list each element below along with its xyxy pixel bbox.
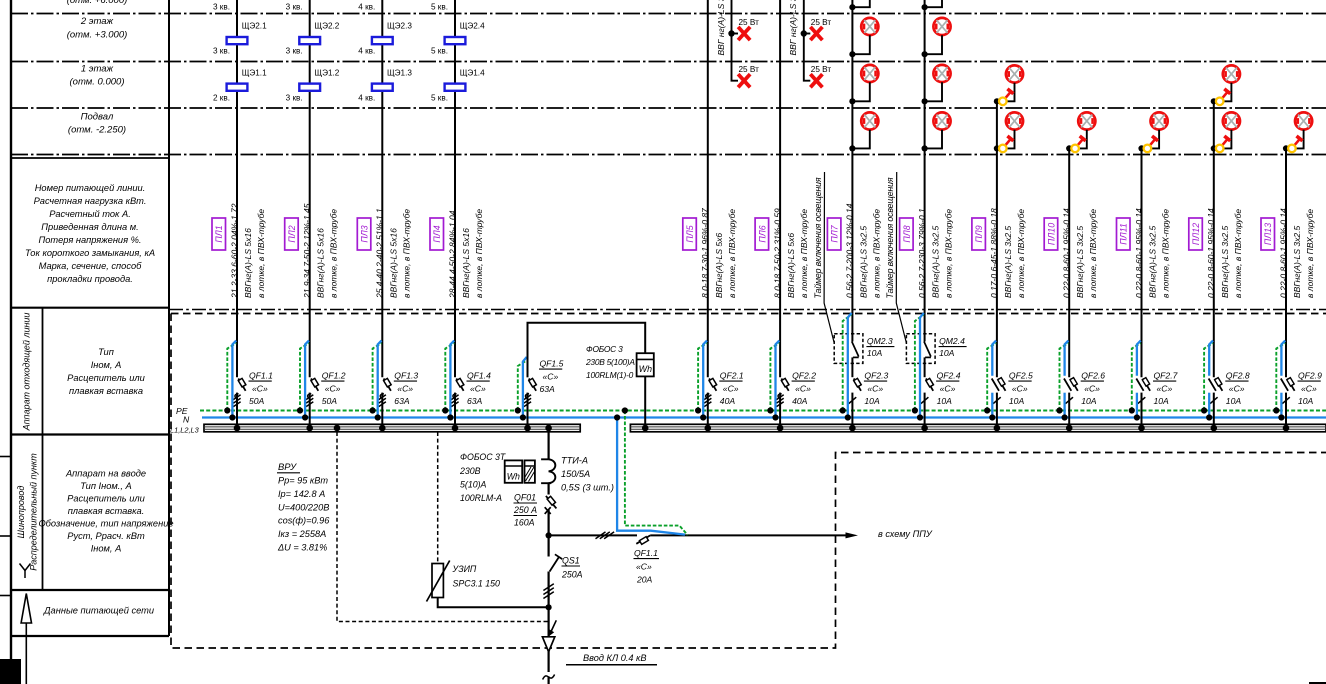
svg-text:ПЛ7: ПЛ7 (830, 224, 840, 242)
svg-text:250 А: 250 А (513, 505, 537, 515)
cable riser ПЛ8 PE+N (915, 315, 924, 411)
label ПЛ1 feeder tag (212, 218, 226, 250)
node N tap PPU (614, 414, 620, 420)
wire QF2.8 to busbar (1213, 393, 1215, 425)
wire lamp drop ПЛ10 basement (1069, 130, 1087, 149)
svg-text:Марка, сечение, способ: Марка, сечение, способ (39, 261, 143, 271)
svg-text:«C»: «C» (795, 384, 811, 394)
label ВРУ data (277, 461, 330, 553)
wire feeder line ПЛ5 (707, 0, 709, 377)
busbar L1,L2,L3 left section (204, 424, 580, 432)
wire lamp drop ПЛ7 floor2 (852, 35, 869, 54)
surge protector УЗИП varistor (432, 564, 443, 598)
svg-text:10А: 10А (937, 396, 953, 406)
lamp ПЛ13 basement (1295, 112, 1312, 129)
node УЗИП junction (546, 604, 552, 610)
cable riser ПЛ6 PE+N (770, 343, 779, 410)
svg-text:Номер питающей линии.: Номер питающей линии. (35, 183, 146, 193)
lamp ПЛ7 floor0 (861, 112, 878, 129)
node lamp drop ПЛ9 floor1 (994, 98, 1000, 104)
svg-text:«C»: «C» (543, 372, 559, 382)
wire lamp drop ПЛ11 basement (1142, 130, 1160, 149)
svg-text:3 кв.: 3 кв. (286, 3, 303, 12)
label ПЛ10 feeder tag (1044, 218, 1058, 250)
cable riser ПЛ3 PE+N (373, 343, 382, 410)
wire QF1.3 to busbar (381, 393, 383, 425)
svg-text:в лотке, в ПВХ-трубе: в лотке, в ПВХ-трубе (1016, 209, 1026, 298)
svg-text:ПЛ5: ПЛ5 (685, 225, 695, 242)
svg-text:10А: 10А (1081, 396, 1097, 406)
node lamp drop ПЛ12 floor0 (1211, 145, 1217, 151)
node QF1.2 busbar (306, 425, 313, 432)
svg-text:Wh: Wh (507, 472, 520, 482)
cable PE to PPU branch (625, 411, 688, 536)
wire lamp drop ПЛ8 floor0 (925, 130, 942, 149)
svg-text:QF2.1: QF2.1 (720, 371, 744, 381)
wire УЗИП to main line (438, 598, 549, 608)
svg-text:«C»: «C» (1229, 384, 1245, 394)
lamp ПЛ7 floor2 (861, 18, 878, 35)
breaker QF2.9 (1281, 378, 1295, 404)
svg-text:Iном, А: Iном, А (91, 544, 122, 554)
wire floor-level dash-dot line 4 (11, 154, 1326, 156)
svg-text:0.17-0.6-45-1.88%-0.18: 0.17-0.6-45-1.88%-0.18 (989, 208, 999, 298)
table cell incoming apparatus text (38, 469, 173, 554)
wire floor-level dash-dot line 3 (11, 107, 1326, 109)
svg-text:в лотке, в ПВХ-трубе: в лотке, в ПВХ-трубе (871, 209, 881, 298)
node QF1.4 busbar (452, 425, 459, 432)
svg-text:SPC3.1 150: SPC3.1 150 (453, 579, 501, 589)
node lamp stub floor3 ПЛ8 (922, 4, 928, 10)
contactor QM2.4 contact (924, 342, 931, 357)
table feeder-data header text (25, 183, 155, 284)
breaker QF2.4 (921, 378, 934, 403)
svg-text:5 кв.: 5 кв. (431, 47, 448, 56)
wire feeder line ПЛ13 (1285, 148, 1287, 377)
svg-text:230В: 230В (459, 466, 481, 476)
svg-text:150/5А: 150/5А (561, 469, 590, 479)
cable break symbol (543, 675, 555, 680)
svg-text:«C»: «C» (325, 384, 341, 394)
breaker QF1.1 (233, 378, 245, 406)
wire feeder line ПЛ11 (1141, 148, 1143, 377)
svg-text:Рр= 95 кВт: Рр= 95 кВт (278, 476, 328, 486)
lamp ПЛ10 basement (1078, 112, 1095, 129)
label ПЛ2 feeder tag (285, 218, 299, 250)
lamp ПЛ11 basement (1151, 112, 1168, 129)
wire lamp drop ПЛ12 floor0 (1214, 130, 1232, 149)
svg-text:Обозначение, тип напряжение: Обозначение, тип напряжение (38, 519, 173, 529)
svg-text:ФОБОС 3Т: ФОБОС 3Т (460, 452, 506, 462)
svg-text:ВВГнг(А)-LS 5х16: ВВГнг(А)-LS 5х16 (316, 228, 326, 298)
svg-text:«C»: «C» (470, 384, 486, 394)
svg-text:2 этаж: 2 этаж (80, 16, 114, 27)
meter ФОБОС 3Т second box (525, 460, 535, 482)
wire lamp drop ПЛ7 floor1 (852, 82, 869, 101)
svg-text:(отм. -2.250): (отм. -2.250) (68, 125, 126, 136)
svg-text:ВВГнг(А)-LS 5х16: ВВГнг(А)-LS 5х16 (388, 228, 398, 298)
sheet edge tick 2 (0, 535, 11, 537)
lamp ПЛ12 floor0 (1223, 112, 1240, 129)
svg-text:63А: 63А (467, 396, 483, 406)
svg-text:3 кв.: 3 кв. (286, 94, 303, 103)
svg-text:5(10)А: 5(10)А (460, 480, 487, 490)
svg-text:QM2.3: QM2.3 (867, 336, 893, 346)
svg-text:100RLM-A: 100RLM-A (460, 493, 502, 503)
leader line timer ПЛ7 (824, 172, 834, 343)
meter ФОБОС 3 Wh box (637, 353, 654, 376)
node lamp drop ПЛ8 floor2 (922, 51, 928, 57)
svg-text:Iкз = 2558А: Iкз = 2558А (278, 529, 326, 539)
cable riser ПЛ5 PE+N (698, 343, 707, 410)
svg-text:Потеря напряжения %.: Потеря напряжения %. (38, 235, 141, 245)
svg-text:10А: 10А (1226, 396, 1242, 406)
svg-text:ΔU = 3.81%: ΔU = 3.81% (277, 543, 327, 553)
wire feeder line ПЛ12 (1213, 101, 1215, 377)
wall luminaire ПЛ9 floor0 (999, 136, 1013, 152)
svg-text:cos(ф)=0.96: cos(ф)=0.96 (278, 516, 330, 526)
node branch to PPU (546, 532, 552, 538)
label ПЛ4 feeder tag (430, 218, 444, 250)
svg-text:25 Вт: 25 Вт (811, 18, 832, 27)
wire QF1.5 to busbar (527, 393, 529, 425)
node metering boundary on busbar (334, 425, 341, 432)
svg-text:L1,L2,L3: L1,L2,L3 (170, 426, 200, 435)
breaker QF01 (546, 496, 557, 509)
svg-text:«C»: «C» (1084, 384, 1100, 394)
wire QF2.3 to busbar (851, 393, 853, 425)
breaker QF2.6 (1064, 378, 1078, 404)
svg-text:ВВГнг(А)-LS 5х6: ВВГнг(А)-LS 5х6 (786, 233, 796, 298)
svg-text:Таймер включения освещения: Таймер включения освещения (885, 177, 895, 298)
lamp 25W floor1 ПЛ5 (738, 74, 750, 87)
svg-text:QF1.1: QF1.1 (634, 548, 658, 558)
breaker QF1.3 (379, 378, 391, 406)
wall luminaire ПЛ13 basement (1288, 136, 1302, 152)
svg-text:21.2-33.6-60-2.04%-1.72: 21.2-33.6-60-2.04%-1.72 (229, 203, 239, 299)
svg-text:2 кв.: 2 кв. (213, 94, 230, 103)
label floor 2 (67, 16, 128, 41)
svg-text:Приведенная длина м.: Приведенная длина м. (41, 222, 138, 232)
panel box ЩЭ1.1 (227, 84, 248, 91)
three-wire marks on PPU branch (596, 532, 615, 539)
svg-text:20А: 20А (636, 575, 653, 585)
svg-text:«C»: «C» (867, 384, 883, 394)
table strip divider (42, 308, 44, 590)
svg-text:0.22-0.8-60-1.95%-0.14: 0.22-0.8-60-1.95%-0.14 (1134, 208, 1144, 298)
wall luminaire ПЛ10 basement (1071, 136, 1085, 152)
cable riser ПЛ11 PE+N (1132, 343, 1141, 410)
node QF2.1 busbar (705, 425, 712, 432)
wire feeder line ПЛ1 (236, 0, 238, 377)
supply feed arrow symbol (21, 594, 31, 684)
node incoming busbar (545, 425, 552, 432)
svg-text:100RLM(1)-0: 100RLM(1)-0 (586, 370, 634, 380)
svg-text:ЩЭ2.4: ЩЭ2.4 (460, 22, 485, 31)
wire feeder line ПЛ6 (779, 0, 781, 377)
svg-text:«C»: «C» (940, 384, 956, 394)
node QF2.3 busbar (849, 425, 856, 432)
breaker QF2.3 (849, 378, 862, 403)
svg-text:«C»: «C» (636, 562, 652, 572)
svg-text:в лотке, в ПВХ-трубе: в лотке, в ПВХ-трубе (474, 209, 484, 298)
breaker QF2.8 (1209, 378, 1223, 404)
svg-text:10А: 10А (867, 348, 883, 358)
svg-text:Ток короткого замыкания, кА: Ток короткого замыкания, кА (25, 248, 155, 258)
svg-text:ВВГнг(А)-LS 3х2.5: ВВГнг(А)-LS 3х2.5 (1148, 226, 1158, 298)
wire QF2.2 to busbar (779, 393, 781, 425)
label ПЛ11 feeder tag (1117, 218, 1131, 250)
wire QF2.4 to busbar (924, 393, 926, 425)
lamp ПЛ8 floor1 (933, 65, 950, 82)
wire dash-dot line under feeder-data row (169, 309, 1326, 311)
node lamp drop ПЛ7 floor2 (849, 51, 855, 57)
svg-text:QF1.5: QF1.5 (540, 359, 564, 369)
node lamp drop ПЛ7 floor1 (849, 98, 855, 104)
svg-text:ПЛ12: ПЛ12 (1191, 223, 1201, 245)
svg-text:ВВГнг(А)-LS 3х2.5: ВВГнг(А)-LS 3х2.5 (1075, 226, 1085, 298)
wire feeder line ПЛ7 (851, 0, 853, 342)
svg-text:ПЛ10: ПЛ10 (1046, 223, 1056, 245)
meter ФОБОС 3Т Wh box (505, 460, 523, 482)
svg-text:50А: 50А (322, 396, 338, 406)
breaker QF2.1 (704, 378, 716, 406)
cable N to PPU branch (617, 418, 685, 535)
svg-text:QF2.9: QF2.9 (1298, 371, 1322, 381)
wire branch to PPU (549, 534, 637, 536)
three-wire marks on main line (543, 584, 553, 599)
cable termination symbol (542, 637, 554, 652)
sheet edge tick 1 (0, 456, 11, 458)
cable riser ПЛ4 PE+N (445, 343, 454, 410)
svg-text:63А: 63А (540, 384, 556, 394)
svg-text:5 кв.: 5 кв. (431, 3, 448, 12)
cable riser ПЛ7 PE+N (843, 315, 852, 411)
panel box ЩЭ2.4 (445, 37, 466, 44)
svg-text:ЩЭ1.3: ЩЭ1.3 (387, 69, 412, 78)
svg-text:QF2.8: QF2.8 (1226, 371, 1250, 381)
svg-text:ВВГ нг(А)-LS 3х1.5: ВВГ нг(А)-LS 3х1.5 (788, 0, 798, 56)
wire feeder line ПЛ3 (381, 0, 383, 377)
node lamp branch ПЛ6 (801, 30, 807, 36)
wire lamp drop ПЛ7 floor0 (852, 130, 869, 149)
contactor QM2.3 contact (852, 342, 859, 357)
label ФОБОС 3Т (459, 452, 506, 503)
node QF2.2 busbar (777, 425, 784, 432)
svg-text:Руст, Ррасч. кВт: Руст, Ррасч. кВт (67, 531, 145, 541)
svg-text:4 кв.: 4 кв. (358, 94, 375, 103)
wire N bus (blue) (202, 416, 1326, 418)
label ПЛ13 feeder tag (1261, 218, 1275, 250)
svg-text:QF2.5: QF2.5 (1009, 371, 1033, 381)
svg-text:Расчетный ток А.: Расчетный ток А. (49, 209, 131, 219)
svg-text:«C»: «C» (1012, 384, 1028, 394)
node lamp drop ПЛ11 basement (1138, 145, 1144, 151)
wire lamp drop ПЛ13 basement (1286, 130, 1304, 149)
svg-text:QF2.7: QF2.7 (1154, 371, 1179, 381)
svg-text:QF1.2: QF1.2 (322, 371, 346, 381)
surge protector УЗИП dashed link (437, 432, 439, 563)
wire QF2.6 to busbar (1068, 393, 1070, 425)
svg-text:QF2.4: QF2.4 (937, 371, 961, 381)
panel box ЩЭ2.2 (299, 37, 320, 44)
lamp 25W floor2 ПЛ6 (810, 27, 822, 40)
svg-text:ЩЭ2.2: ЩЭ2.2 (314, 22, 339, 31)
svg-text:25 Вт: 25 Вт (811, 65, 832, 74)
label ПЛ7 feeder tag (827, 218, 841, 250)
svg-text:28-44.4-50-2.84%-1.04: 28-44.4-50-2.84%-1.04 (447, 210, 457, 299)
panel box ЩЭ2.3 (372, 37, 393, 44)
svg-text:8.0-18.7-30-1.96%-0.87: 8.0-18.7-30-1.96%-0.87 (700, 208, 710, 298)
wire floor-level dash-dot line 1 (11, 13, 1326, 15)
svg-text:1 этаж: 1 этаж (81, 64, 114, 75)
node lamp drop ПЛ13 basement (1283, 145, 1289, 151)
cable entry arrow (551, 620, 557, 632)
svg-text:10А: 10А (864, 396, 880, 406)
svg-text:ВВГнг(А)-LS 3х2.5: ВВГнг(А)-LS 3х2.5 (1003, 226, 1013, 298)
svg-text:40А: 40А (720, 396, 736, 406)
wire QF1.1 to busbar (236, 393, 238, 425)
current transformer ТТИ-А (541, 459, 551, 483)
wire feeder line ПЛ8 (924, 0, 926, 342)
wire QF2.7 to busbar (1141, 393, 1143, 425)
svg-text:«C»: «C» (252, 384, 268, 394)
metering section dashed boundary (337, 432, 549, 622)
svg-text:160А: 160А (514, 518, 535, 528)
svg-text:0.22-0.8-60-1.95%-0.14: 0.22-0.8-60-1.95%-0.14 (1278, 208, 1288, 298)
svg-text:(отм. +3.000): (отм. +3.000) (67, 30, 128, 41)
table row bottom line (11, 635, 169, 637)
wire lamp drop ПЛ8 floor1 (925, 82, 942, 101)
svg-text:в лотке, в ПВХ-трубе: в лотке, в ПВХ-трубе (401, 209, 411, 298)
svg-text:«C»: «C» (1301, 384, 1317, 394)
svg-text:в лотке, в ПВХ-трубе: в лотке, в ПВХ-трубе (256, 209, 266, 298)
svg-text:в лотке, в ПВХ-трубе: в лотке, в ПВХ-трубе (799, 209, 809, 298)
svg-text:Тип: Тип (98, 347, 114, 357)
node QF1.3 busbar (379, 425, 386, 432)
svg-text:0,5S (3 шт.): 0,5S (3 шт.) (561, 483, 614, 493)
lamp ПЛ8 floor0 (933, 112, 950, 129)
node lamp stub floor3 ПЛ7 (849, 4, 855, 10)
cable riser ПЛ2 PE+N (300, 343, 309, 410)
svg-text:8.0-18.7-50-2.31%-0.59: 8.0-18.7-50-2.31%-0.59 (772, 208, 782, 298)
svg-text:0.22-0.8-60-1.95%-0.14: 0.22-0.8-60-1.95%-0.14 (1206, 208, 1216, 298)
svg-text:ЩЭ1.1: ЩЭ1.1 (242, 69, 267, 78)
svg-text:QF1.4: QF1.4 (467, 371, 491, 381)
wire QF2.9 to busbar (1285, 393, 1287, 425)
svg-text:Данные питающей сети: Данные питающей сети (43, 606, 154, 616)
wire floor-level dash-dot line 2 (11, 61, 1326, 63)
wire QF1.2 to busbar (309, 393, 311, 425)
wall luminaire ПЛ12 floor0 (1216, 136, 1230, 152)
wire incoming main line (547, 432, 549, 460)
switch QS1 (550, 557, 560, 572)
table row line under incoming apparatus row (11, 589, 169, 591)
wire QF2.1 to busbar (707, 393, 709, 425)
cable riser QF1.5 PE+N (518, 361, 527, 411)
node PE tap PPU (622, 407, 628, 413)
label ПЛ9 feeder tag (972, 218, 986, 250)
wire meter to right busbar (644, 376, 646, 424)
svg-text:QF2.2: QF2.2 (792, 371, 816, 381)
sheet edge tick 3 (0, 595, 11, 597)
wire QF1.4 to busbar (454, 393, 456, 425)
contactor QM2.3 dashed box (834, 334, 863, 364)
VRU cabinet dashed boundary (171, 313, 1326, 315)
table row line under feeder data (11, 307, 169, 309)
svg-text:«C»: «C» (397, 384, 413, 394)
svg-text:в лотке, в ПВХ-трубе: в лотке, в ПВХ-трубе (329, 209, 339, 298)
lamp ПЛ8 floor2 (933, 18, 950, 35)
node QF2.6 busbar (1066, 425, 1073, 432)
node QF2.8 busbar (1211, 425, 1218, 432)
node lamp drop ПЛ12 floor1 (1211, 98, 1217, 104)
table column divider (168, 0, 170, 636)
svg-text:Шинопровод: Шинопровод (16, 486, 26, 539)
svg-text:Подвал: Подвал (81, 112, 114, 123)
svg-text:10А: 10А (1298, 396, 1314, 406)
panel box ЩЭ1.3 (372, 84, 393, 91)
label ФОБОС 3 (585, 344, 635, 380)
svg-text:в лотке, в ПВХ-трубе: в лотке, в ПВХ-трубе (727, 209, 737, 298)
svg-text:ПЛ11: ПЛ11 (1119, 223, 1129, 245)
node QF2.7 busbar (1138, 425, 1145, 432)
svg-text:ЩЭ2.1: ЩЭ2.1 (242, 22, 267, 31)
svg-text:3 кв.: 3 кв. (213, 47, 230, 56)
svg-text:ВВГнг(А)-LS 3х2.5: ВВГнг(А)-LS 3х2.5 (1220, 226, 1230, 298)
svg-text:5 кв.: 5 кв. (431, 94, 448, 103)
node lamp drop ПЛ8 floor1 (922, 98, 928, 104)
label ПЛ5 feeder tag (683, 218, 697, 250)
breaker QF1.1 of PPU branch (636, 535, 650, 543)
svg-text:0.56-2.7-230-3.79%-0.1: 0.56-2.7-230-3.79%-0.1 (917, 208, 927, 298)
svg-text:в схему ППУ: в схему ППУ (878, 529, 933, 539)
leader line timer ПЛ8 (896, 172, 906, 343)
panel box ЩЭ2.1 (227, 37, 248, 44)
svg-text:Аппарат отходящей линии: Аппарат отходящей линии (22, 313, 32, 432)
svg-text:4 кв.: 4 кв. (358, 3, 375, 12)
svg-text:QF1.1: QF1.1 (249, 371, 273, 381)
svg-text:0.56-2.7-200-3.12%-0.14: 0.56-2.7-200-3.12%-0.14 (845, 203, 855, 298)
svg-text:в лотке, в ПВХ-трубе: в лотке, в ПВХ-трубе (1088, 209, 1098, 298)
svg-text:ПЛ6: ПЛ6 (757, 225, 767, 242)
svg-text:QM2.4: QM2.4 (939, 336, 965, 346)
cable riser ПЛ9 PE+N (987, 343, 996, 410)
svg-text:3 кв.: 3 кв. (286, 47, 303, 56)
sheet corner stamp block (0, 659, 21, 684)
svg-text:ЩЭ1.4: ЩЭ1.4 (460, 69, 485, 78)
wire feeder line ПЛ9 (996, 101, 998, 377)
svg-text:10А: 10А (1009, 396, 1025, 406)
svg-text:плавкая вставка: плавкая вставка (69, 386, 143, 396)
svg-text:прокладки провода.: прокладки провода. (47, 274, 133, 284)
svg-text:ПЛ4: ПЛ4 (432, 225, 442, 242)
svg-text:ЩЭ1.2: ЩЭ1.2 (314, 69, 339, 78)
svg-text:«C»: «C» (1157, 384, 1173, 394)
breaker QF2.7 (1136, 378, 1150, 404)
svg-text:0.22-0.8-60-1.95%-0.14: 0.22-0.8-60-1.95%-0.14 (1062, 208, 1072, 298)
sheet bottom-right frame fragment (1309, 682, 1326, 684)
svg-text:Расцепитель или: Расцепитель или (67, 494, 145, 504)
svg-text:ПЛ8: ПЛ8 (902, 225, 912, 242)
lamp 25W floor1 ПЛ6 (810, 74, 822, 87)
wire feeder line ПЛ2 (309, 0, 311, 377)
svg-text:«C»: «C» (723, 384, 739, 394)
svg-text:ТТИ-А: ТТИ-А (561, 456, 588, 466)
svg-text:QF2.3: QF2.3 (864, 371, 888, 381)
wire lamp stub floor3 ПЛ7 (852, 0, 869, 7)
label ПЛ8 feeder tag (900, 218, 914, 250)
